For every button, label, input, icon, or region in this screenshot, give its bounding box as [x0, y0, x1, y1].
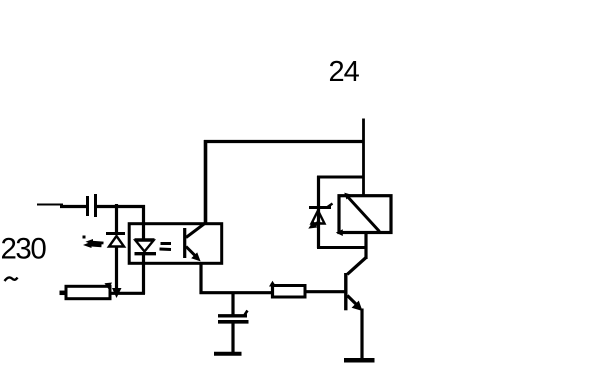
relay K1 diagonal	[344, 193, 379, 232]
ground (C2)	[214, 352, 242, 356]
wire top-left lead	[37, 204, 63, 206]
wire R2 to base	[305, 290, 346, 293]
optocoupler U1 body	[129, 224, 222, 264]
diode D3 triangle	[312, 211, 325, 224]
relay K1 coil box	[339, 196, 391, 233]
junction arrowhead at bottom of D1 branch	[112, 288, 122, 298]
wire from D1 down to bottom net	[115, 246, 118, 293]
LED D2 (inside optocoupler)	[135, 240, 157, 254]
resistor R2	[269, 281, 305, 299]
diode D1 (anti-parallel protection diode, cathode bar)	[106, 232, 125, 235]
wire vertical to optocoupler collector	[204, 140, 208, 224]
diode D3 stray arrow	[308, 221, 320, 229]
ground (transistor emitter)	[344, 358, 375, 363]
capacitor C2	[218, 311, 249, 322]
wire flyback loop left	[317, 176, 320, 248]
relay stray arrow bottom-left	[336, 229, 344, 236]
wire 24V vertical	[362, 119, 365, 197]
resistor R1 left lead	[60, 291, 67, 296]
phototransistor (inside optocoupler)	[185, 223, 206, 262]
diode D1 triangle	[109, 236, 124, 247]
light arrow dot	[83, 236, 86, 239]
svg-text:230: 230	[1, 233, 47, 266]
capacitor C1	[88, 194, 96, 217]
diode D3 (flyback) cathode bar	[309, 204, 333, 208]
light arrow upper	[86, 239, 104, 245]
wire down into optocoupler (LED anode branch)	[142, 205, 145, 240]
wire down to capacitor C2	[231, 293, 234, 315]
emitter wire down	[360, 309, 363, 360]
wire C2 to ground	[231, 323, 234, 353]
wire flyback loop bottom	[317, 246, 366, 249]
light arrow lower	[83, 242, 102, 248]
svg-text:24: 24	[329, 56, 360, 88]
optocoupler light marks	[160, 244, 172, 250]
phototransistor emitter wire down	[199, 262, 202, 294]
wire relay bottom	[364, 232, 367, 260]
wire to capacitor C1	[60, 205, 87, 208]
label ~ (AC)	[5, 277, 18, 281]
wire down to diode D1	[115, 204, 118, 233]
LED cathode wire down	[142, 255, 145, 294]
resistor R1	[66, 283, 112, 299]
wire top horizontal	[204, 140, 365, 143]
wire emitter net horizontal	[200, 291, 275, 294]
transistor Q2	[346, 258, 366, 312]
wire R1 to LED cathode	[110, 292, 145, 295]
wire flyback loop top	[317, 176, 364, 179]
wire from C1 to corner	[97, 205, 145, 208]
